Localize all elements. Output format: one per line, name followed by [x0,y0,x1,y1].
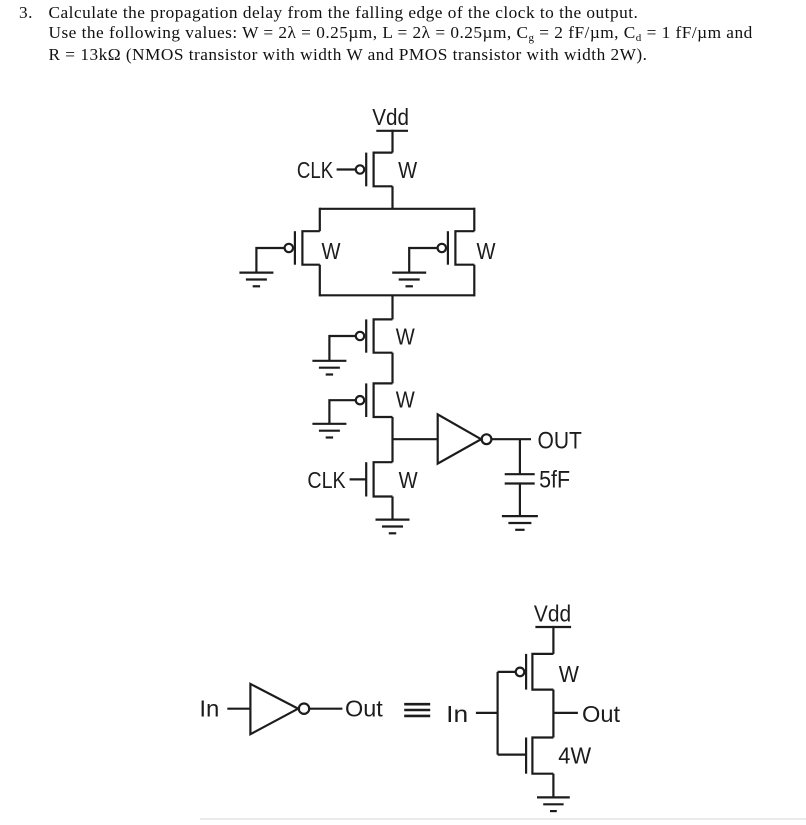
transistor M1 PMOS channel (CLK precharge) [374,153,393,187]
transistor M7 PMOS channel [532,654,553,690]
transistor M4 gate line [365,319,367,352]
ground (CMOS inverter) [537,797,570,811]
transistor M2 PMOS channel (left keeper) [302,231,319,265]
transistor M4 PMOS channel (series stack) [374,319,393,352]
wire M7 drain to M8 drain [552,690,554,738]
transistor M5 gate line [365,383,367,417]
svg-text:In: In [199,696,219,722]
capacitor C1 top plate [505,473,535,475]
svg-text:W: W [396,387,415,413]
wire CLK to M6 gate [350,478,367,480]
inverter U2 triangle [250,684,298,734]
transistor M3 gate line [447,231,449,265]
wire Vdd to M1 drain [391,130,393,153]
inverter U2 output bubble [299,704,309,714]
wire right branch down [473,208,475,232]
wire M4 gate to ground [329,336,355,361]
capacitor C1 bottom plate [505,482,535,484]
Vdd power rail (CMOS inverter) [535,626,571,628]
wire M4 to M5 [391,353,393,384]
wire bottom rail to M4 [391,295,393,319]
transistor M5 gate bubble [356,396,364,404]
ground (M4 gate) [312,361,346,375]
wire left branch to bottom rail [319,265,321,297]
wire common gate vertical [497,672,499,755]
transistor M3 gate bubble [438,244,446,252]
transistor M7 gate bubble [516,668,525,677]
wire U2 output to Out [309,708,342,710]
wire right branch to bottom rail [473,265,475,297]
wire common gate to M8 gate [498,753,526,755]
svg-text:In: In [446,701,468,727]
svg-text:Out: Out [345,696,383,722]
Vdd power rail [376,130,408,132]
inverter U1 triangle [438,414,481,463]
wire U1 output to OUT [491,438,531,440]
ground (M3 gate) [392,273,426,287]
wire M5 gate to ground [329,400,355,424]
problem number [19,3,33,23]
svg-text:Vdd: Vdd [534,600,571,626]
wire node X to inverter input [393,438,438,440]
wire common gate to M7 bubble [498,671,516,673]
wire left branch down [319,208,321,232]
transistor M4 gate bubble [356,332,364,340]
svg-text:CLK: CLK [307,467,346,493]
svg-text:Vdd: Vdd [372,104,409,130]
wire M3 gate to ground [409,248,437,273]
transistor M8 gate line [525,738,527,774]
svg-text:W: W [477,238,496,264]
svg-text:W: W [399,467,418,493]
problem statement text [49,3,753,65]
wire In to common gate [476,712,498,714]
wire OUT node to capacitor [519,439,521,474]
inverter U1 output bubble [482,434,492,444]
svg-text:4W: 4W [558,742,591,768]
transistor M8 NMOS channel [532,738,553,774]
wire CLK to M1 bubble [337,168,356,170]
node: parallel top rail [320,208,475,210]
wire M6 source to ground [391,497,393,520]
transistor M2 gate bubble [285,244,293,252]
wire M5 to M6 / node X [391,417,393,462]
transistor M3 PMOS channel (right keeper) [455,231,474,265]
wire M8 source to ground [552,774,554,798]
svg-text:Out: Out [582,701,621,727]
wire Vdd to M7 [552,626,554,654]
transistor M1 gate line [365,153,367,187]
svg-text:CLK: CLK [297,157,334,183]
transistor M7 gate line [525,654,527,690]
wire output node to Out [553,712,578,714]
ground (M6 source) [376,520,410,534]
svg-text:OUT: OUT [538,427,583,454]
svg-text:W: W [398,157,417,183]
svg-text:W: W [559,661,579,687]
ground (capacitor) [502,516,538,530]
node: parallel bottom rail [320,294,475,296]
transistor M5 PMOS channel (series stack) [374,383,393,417]
ground (M5 gate) [312,424,346,438]
ground (M2 gate) [239,273,273,287]
svg-text:5fF: 5fF [539,467,570,494]
svg-text:W: W [322,238,341,264]
svg-text:W: W [396,324,415,350]
wire M2 gate to ground [256,248,284,273]
equivalence symbol [404,704,430,716]
transistor M6 NMOS channel (CLK pulldown) [374,462,393,496]
wire M1 source to parallel rail [391,186,393,209]
wire In to inverter U2 [227,708,251,710]
transistor M1 gate bubble [356,165,364,173]
faint scan artifact line at bottom [200,818,806,820]
transistor M6 gate line [365,462,367,496]
transistor M2 gate line [294,231,296,265]
wire capacitor to ground [519,484,521,517]
